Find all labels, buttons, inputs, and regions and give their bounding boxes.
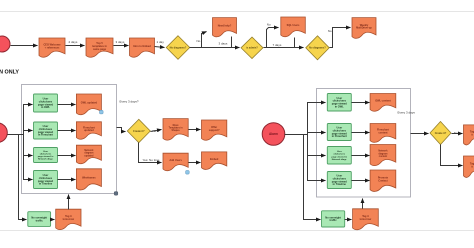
svg-text:No diagrams?: No diagrams?: [170, 46, 187, 49]
svg-text:3 days: 3 days: [219, 42, 228, 46]
document: CEO Welcome + references: [39, 38, 65, 57]
svg-text:Add Users: Add Users: [169, 159, 182, 162]
label Yes: No time: [143, 158, 160, 162]
svg-text:tomorrow: tomorrow: [360, 218, 372, 221]
label 7 days: [273, 43, 282, 47]
process: page viewed in Timeline (right): [327, 172, 351, 189]
svg-text:in Timeline: in Timeline: [333, 182, 347, 186]
wire OWL process to OWL updated doc: [58, 104, 76, 106]
document: Weekly Mail/Drive-up: [352, 18, 376, 39]
document: Offer support?: [202, 120, 227, 140]
label No (Create it left): [153, 129, 157, 133]
svg-text:OWL content: OWL content: [375, 100, 391, 103]
svg-text:updated: updated: [84, 129, 94, 132]
comment icon on Add Users doc: [186, 171, 190, 175]
comment icon on OWL updated doc: [100, 110, 104, 114]
svg-text:7 days: 7 days: [273, 43, 282, 47]
svg-text:Network: Network: [84, 149, 94, 152]
document: SQL Users: [281, 17, 306, 37]
document: Flowchart content: [370, 124, 396, 143]
decision: No diagrams? (first): [166, 36, 190, 60]
svg-text:2 days: 2 days: [69, 40, 78, 44]
wire to Promote content doc: [352, 180, 370, 182]
label 1 day: [157, 40, 165, 44]
wire down to No overnight traffic (left): [19, 135, 27, 220]
process: page viewed in Timeline: [34, 171, 58, 189]
process: page viewed in Network diagram: [34, 148, 58, 163]
wire Network process to Network updated doc: [58, 155, 76, 157]
svg-text:Mail/Drive-up: Mail/Drive-up: [356, 27, 372, 30]
document: OWL updated: [76, 94, 101, 115]
svg-text:Create it?: Create it?: [133, 130, 145, 133]
start node (top row): [0, 36, 10, 52]
label 3 days (after Need help): [219, 42, 228, 46]
svg-text:+ references: + references: [45, 46, 60, 49]
svg-text:No: No: [197, 39, 201, 43]
document: Tag it tomorrow (left): [56, 209, 81, 229]
svg-text:traffic: traffic: [330, 218, 338, 222]
wire branch up to Weekly doc: [330, 28, 351, 48]
wire Need help doc down to main line: [231, 37, 233, 48]
label 2 days: [69, 40, 78, 44]
svg-text:is admin?: is admin?: [246, 47, 258, 50]
svg-text:SQL Users: SQL Users: [287, 24, 300, 27]
decision: No diagrams? (second): [306, 36, 330, 60]
document: right top (clipped at edge): [464, 125, 474, 145]
svg-text:traffic: traffic: [36, 218, 44, 222]
svg-text:Network diagr.: Network diagr.: [38, 158, 53, 161]
svg-text:updated: updated: [84, 154, 94, 157]
svg-text:in OWL: in OWL: [335, 104, 344, 108]
wire right trunk down to row 4: [308, 156, 326, 181]
wire first decision to admin decision: [190, 47, 240, 49]
page boundary line top: [0, 11, 474, 13]
svg-text:content: content: [379, 155, 388, 158]
svg-text:3 days: 3 days: [116, 40, 125, 44]
wire right trunk to row 2: [308, 132, 326, 134]
lock icon on left container corner: [114, 192, 118, 196]
svg-text:Templates in: Templates in: [169, 127, 183, 130]
label No (second diagrams decision): [328, 29, 332, 33]
svg-text:1 day: 1 day: [157, 40, 165, 44]
wire right container to Create it decision (right): [411, 133, 429, 135]
wire admin decision to second diagrams decision: [264, 47, 304, 49]
svg-text:Contact: Contact: [378, 179, 387, 182]
process: page viewed in Network diagram (right): [327, 147, 351, 165]
start node Alarm: [262, 123, 285, 146]
wire trunk to row 2 (left): [24, 130, 33, 132]
document: Network diagram content: [370, 145, 396, 166]
wire to Flowchart content doc: [352, 132, 370, 134]
svg-text:Every 3 days?: Every 3 days?: [120, 100, 139, 104]
wire Tag it doc up into left container: [68, 195, 70, 210]
document: Tag it tomorrow (right): [353, 209, 379, 230]
wire to Tag it tomorrow doc (left): [51, 219, 55, 221]
container left (admin pages): [22, 85, 117, 194]
wire start to CEO doc: [11, 45, 38, 47]
start node (left section): [0, 123, 7, 143]
svg-text:Intro to Embed: Intro to Embed: [133, 45, 151, 48]
document: Embed: [202, 152, 227, 170]
wire down to No overnight traffic (right): [304, 135, 321, 220]
wire CEO doc to templates doc: [66, 45, 85, 47]
document: Add Users: [163, 153, 188, 171]
svg-text:Create it?: Create it?: [435, 132, 447, 135]
process: page viewed in Flowchart: [34, 122, 58, 139]
decision: is admin?: [241, 37, 263, 59]
svg-text:Network: Network: [378, 150, 388, 153]
wire SQL Users doc down to main line: [294, 38, 296, 48]
wire branch up to SQL Users doc: [267, 28, 279, 48]
document: Move Templates in Shapes: [163, 119, 188, 141]
wire Tag it doc up into right container: [362, 199, 364, 209]
document: Flowchart updated: [76, 122, 101, 139]
wire Alarm to right trunk: [285, 134, 308, 136]
svg-text:tomorrow: tomorrow: [63, 218, 75, 221]
wire Create it right down to bottom doc: [441, 145, 463, 166]
svg-text:content: content: [378, 132, 387, 135]
svg-text:OWL updated: OWL updated: [81, 102, 98, 105]
process: page viewed in OWL: [34, 94, 58, 112]
wire branch up to Need help doc: [202, 32, 207, 48]
wire to OWL content doc: [352, 102, 370, 104]
process: page viewed in OWL (right): [327, 94, 351, 112]
wire right trunk down to row 3: [308, 135, 326, 156]
wire trunk down to row 3 (left): [24, 135, 33, 156]
wire Create it to Move Templates doc: [151, 130, 162, 132]
wire intro doc to diagrams decision: [155, 47, 165, 48]
wire left container to Create it decision: [117, 128, 126, 132]
document: Wireframes: [76, 169, 101, 190]
svg-text:Every 3 days: Every 3 days: [398, 111, 416, 115]
wire trunk up to row 1 (left): [24, 105, 33, 135]
page boundary line bottom: [0, 230, 474, 232]
container right (content pages): [317, 89, 411, 198]
decision: Create it? (left): [127, 119, 150, 142]
svg-text:support?: support?: [209, 129, 220, 132]
wire Create it decision down to Add Users doc: [139, 143, 162, 163]
svg-text:Wireframes: Wireframes: [82, 177, 96, 180]
decision: Create it? (right): [430, 122, 451, 145]
svg-text:ADMIN ONLY: ADMIN ONLY: [0, 70, 19, 76]
wire Add Users to Embed doc: [189, 162, 201, 164]
label Every 3 days (right): [398, 111, 416, 115]
label No (Create it right): [454, 131, 458, 135]
svg-text:Yes: No time: Yes: No time: [143, 158, 160, 162]
wire Move Templates to Offer support doc: [189, 129, 201, 131]
svg-text:same page: same page: [93, 48, 107, 51]
svg-text:No: No: [267, 23, 271, 27]
label No (first decision): [197, 39, 201, 43]
wire left start to trunk: [8, 134, 24, 136]
wire to Tag it tomorrow doc (right): [345, 219, 352, 221]
document: Intro to Embed: [130, 38, 155, 57]
label No (admin decision): [267, 23, 271, 27]
wire trunk down to row 4 (left): [24, 156, 33, 180]
svg-text:it: it: [471, 165, 473, 168]
document: Network diagram updated: [76, 145, 101, 164]
svg-text:in Flowchart: in Flowchart: [332, 134, 347, 138]
document: Need help?: [213, 18, 237, 37]
wire templates doc to intro doc: [114, 45, 129, 47]
svg-text:in Timeline: in Timeline: [39, 182, 53, 186]
svg-text:No: No: [328, 29, 332, 33]
wire right trunk up to row 1: [308, 103, 326, 135]
svg-text:Need help?: Need help?: [218, 25, 232, 28]
process: No overnight traffic (right): [322, 211, 345, 227]
svg-text:Alarm: Alarm: [269, 132, 278, 136]
label Every 3 days? (left): [120, 100, 139, 104]
svg-text:Network diagr.: Network diagr.: [332, 158, 347, 161]
svg-text:No diagrams?: No diagrams?: [309, 47, 326, 50]
wire Timeline process to Wireframes doc: [58, 179, 76, 181]
wire Create it right to top doc: [452, 133, 463, 135]
document: Promote Contact: [370, 170, 396, 191]
label 3 days: [116, 40, 125, 44]
process: page viewed in Flowchart (right): [327, 124, 351, 141]
svg-text:in Flowchart: in Flowchart: [38, 133, 53, 137]
svg-text:Shapes: Shapes: [172, 130, 181, 132]
svg-text:Embed: Embed: [210, 158, 219, 161]
document: right bottom (clipped at edge): [464, 156, 474, 177]
process: No overnight traffic (left): [28, 212, 51, 227]
svg-text:it: it: [471, 134, 473, 137]
wire to Network content doc: [352, 155, 370, 157]
svg-text:in OWL: in OWL: [41, 105, 50, 109]
wire Flowchart process to Flowchart updated doc: [58, 130, 76, 132]
document: Top 5 templates in same page: [86, 38, 113, 57]
document: OWL content: [370, 94, 396, 112]
label ADMIN ONLY (clipped at left edge): [0, 70, 19, 76]
